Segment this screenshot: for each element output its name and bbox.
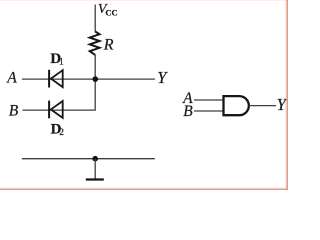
ground node dot <box>92 156 98 162</box>
right page border bar <box>285 0 288 190</box>
ground stub wire <box>94 159 96 179</box>
svg-text:A: A <box>6 69 17 86</box>
svg-text:2: 2 <box>59 128 64 138</box>
wire Vcc feed (vertical from Vcc to resistor) <box>94 5 96 32</box>
wire input A horizontal through D1 to Y <box>22 78 155 80</box>
ground symbol bar <box>86 178 104 180</box>
top page border line <box>0 0 288 2</box>
svg-text:B: B <box>183 103 193 120</box>
svg-text:1: 1 <box>59 57 64 67</box>
svg-text:CC: CC <box>105 8 117 18</box>
svg-text:B: B <box>9 103 19 120</box>
wire gate input B <box>194 110 224 112</box>
diode D1 <box>49 70 63 88</box>
wire gate output <box>249 105 276 107</box>
wire input B horizontal through D2 <box>23 109 96 111</box>
node junction dot <box>93 76 99 82</box>
resistor R <box>90 32 100 55</box>
AND gate U1 <box>224 96 249 115</box>
wire resistor to node and down to B branch <box>94 55 96 110</box>
bottom page border bar <box>0 187 288 190</box>
ground bus wire <box>22 158 155 160</box>
wire gate input A <box>194 99 224 101</box>
diode D2 <box>49 101 63 119</box>
svg-text:R: R <box>103 36 114 53</box>
